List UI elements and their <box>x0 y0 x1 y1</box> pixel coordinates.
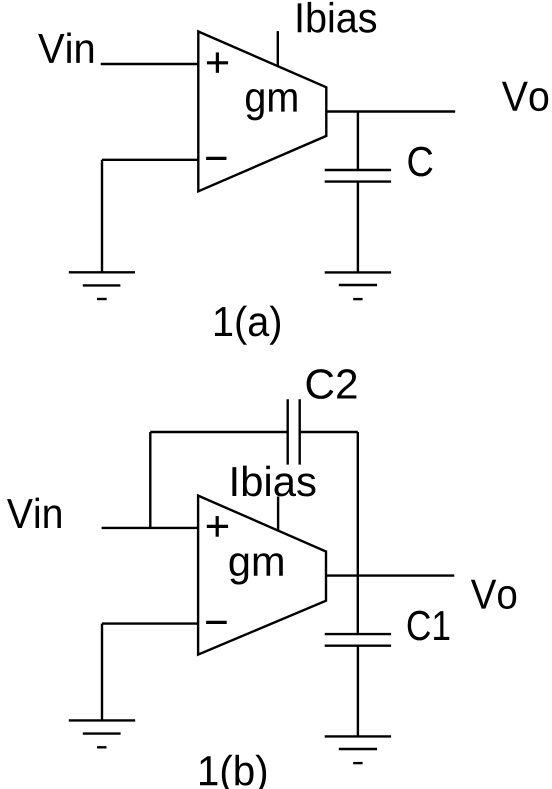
node Ibias label (1a) <box>298 2 376 33</box>
node Vin label (1b) <box>7 498 61 528</box>
wire feedback right segment to output (1b) <box>300 432 358 634</box>
wire feedback left segment (1b) <box>150 432 287 528</box>
op-amp OTA gm U1 (figure 1a) <box>198 32 326 192</box>
plus input symbol (1b) <box>207 516 228 537</box>
ground (1a right) <box>325 272 391 299</box>
plus input symbol (1a) <box>207 52 228 72</box>
wire Ibias (1a) <box>277 31 279 66</box>
capacitor C2 label (figure 1b) <box>307 369 357 399</box>
node Vin label (figure 1a) <box>38 32 93 62</box>
node Ibias label (1b) <box>232 466 315 497</box>
minus input symbol (1b) <box>206 621 227 624</box>
ground (1a left) <box>69 272 135 299</box>
gm value label (1a) <box>246 89 297 120</box>
wire Ibias (1b) <box>277 497 279 531</box>
capacitor C2 (feedback) <box>288 399 300 464</box>
capacitor C <box>325 170 391 182</box>
wire Vin to + input (1b) <box>102 527 199 529</box>
wire output to Vo (1a) <box>326 110 455 112</box>
wire capacitor C1 to ground <box>357 646 359 737</box>
wire output to Vo (1b) <box>326 574 454 576</box>
op-amp OTA gm U2 (figure 1b) <box>198 496 326 655</box>
wire output node to capacitor C (1a) <box>357 112 359 171</box>
ground (1b left) <box>69 720 135 747</box>
caption 1(a) <box>215 306 280 345</box>
wire - input to ground (1a) <box>102 160 198 272</box>
gm value label (1b) <box>230 553 283 584</box>
node Vo label (1a) <box>502 82 548 111</box>
capacitor C1 <box>325 634 391 646</box>
capacitor C value label <box>408 147 432 177</box>
wire Vin to + input (figure 1a) <box>101 63 199 65</box>
node Vo label (1b) <box>471 580 516 609</box>
ground (1b right) <box>325 736 391 763</box>
capacitor C1 value label <box>408 611 450 641</box>
wire - input to ground (1b) <box>102 624 198 721</box>
minus input symbol (1a) <box>206 157 226 160</box>
wire capacitor C to ground <box>357 182 359 273</box>
caption 1(b) <box>200 755 266 789</box>
